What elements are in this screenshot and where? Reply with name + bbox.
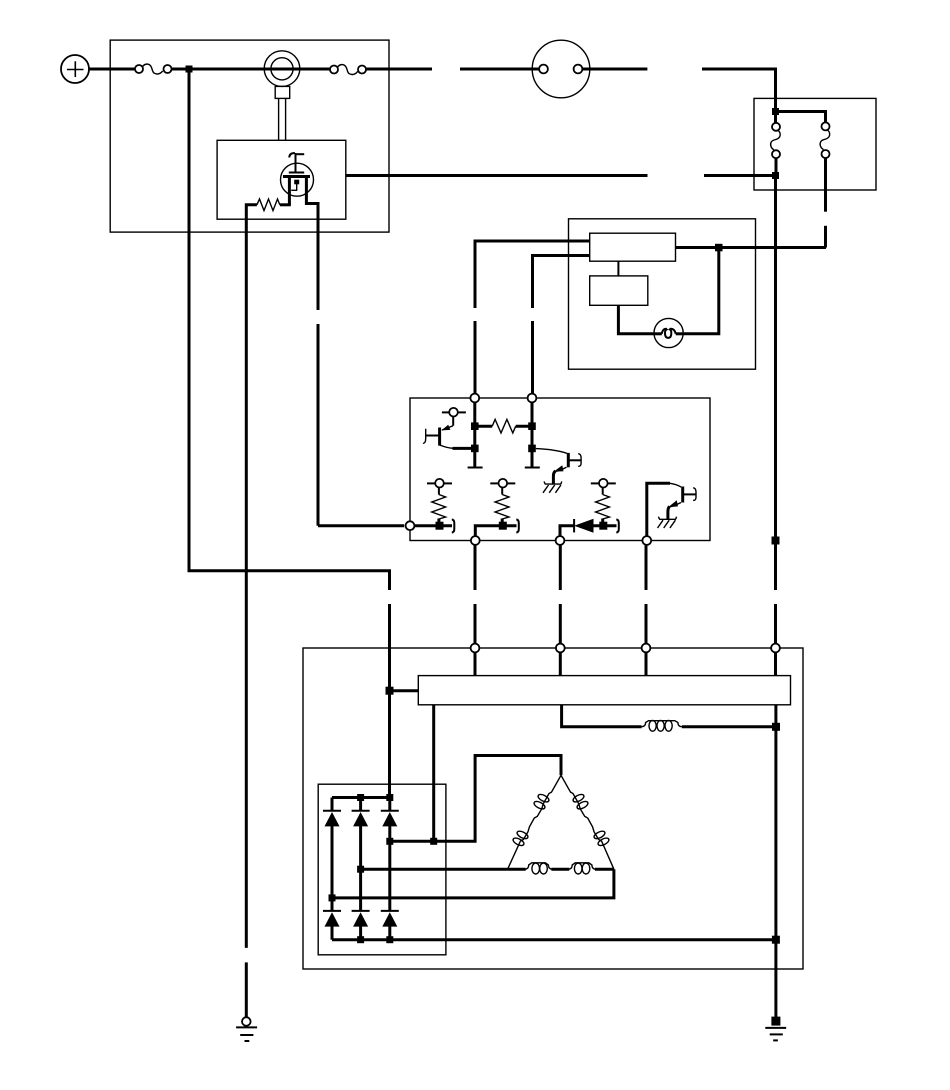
node: splice on main vertical: [772, 537, 780, 545]
wire regulator terminal2 riser: [475, 526, 516, 537]
alternator input terminal A4: [771, 644, 780, 653]
brush/terminal bar rectangle: [418, 676, 790, 705]
rectifier box: [318, 784, 446, 955]
resistor R3 unit: [490, 479, 515, 530]
stator delta winding bottom side: [508, 863, 614, 874]
wire B+ feed into bar: [390, 689, 419, 692]
wire gauge feed 1: [475, 241, 590, 308]
regulator top terminal T2: [528, 394, 537, 403]
main vertical wire from fuse box to alternator: [774, 176, 777, 591]
node: battery feed junction: [186, 66, 193, 73]
node: bottom bus junction D5: [357, 936, 364, 943]
node: regulator net1 vertical: [468, 402, 483, 467]
wire bar to field coil: [562, 705, 642, 727]
ground (right, alternator case): [765, 1017, 786, 1041]
wire field coil to main vertical: [682, 725, 776, 728]
alternator input terminal A1: [471, 644, 480, 653]
wire jumper to fuse F4: [776, 112, 826, 123]
wire junction to ring component: [192, 68, 265, 71]
wire ELD feed (y=175.5 run): [346, 174, 648, 177]
under-dash fuse box: [754, 98, 876, 190]
wire continuing after connector gap: [774, 604, 777, 644]
wire regulator B3 to alternator: [645, 545, 648, 590]
gauge internal unit B: [590, 276, 648, 305]
node: bottom bus junction D6: [386, 936, 393, 943]
stator delta winding right side: [561, 775, 614, 869]
wire fuse F4 down with connector gap: [824, 158, 827, 212]
fuse F2: [330, 65, 366, 75]
ground lead wire (left): [245, 219, 248, 948]
diode D4: [323, 898, 341, 940]
node: field coil junction: [772, 723, 780, 731]
node: top bus junction right: [386, 794, 393, 801]
node: top bus junction middle: [357, 794, 364, 801]
diode D1: [323, 798, 341, 898]
wire segment to under-dash fuse box: [702, 69, 776, 113]
wire unit A to unit B: [617, 261, 619, 276]
wire ignition switch to gap: [583, 68, 648, 71]
diode D7 (zener): [560, 519, 617, 537]
transistor Q3: [647, 483, 696, 536]
wire through ring component to fuse F2: [265, 68, 330, 71]
node: charge light junction: [715, 244, 723, 252]
node: phase V junction on D2 column: [357, 866, 364, 873]
voltage regulator box: [410, 398, 710, 541]
regulator left terminal: [406, 521, 415, 530]
wire bar tap to stator phase W: [432, 705, 435, 842]
ELD unit inner box: [217, 140, 346, 219]
wire A2 to brush bar: [559, 652, 562, 675]
transistor Q2: [536, 449, 581, 493]
wire bulb to junction: [683, 248, 719, 334]
wire segment to ignition switch: [460, 68, 539, 71]
wire A3 to brush bar: [645, 652, 648, 675]
wire unit B to bulb: [618, 305, 654, 334]
node: fuse box bottom junction: [772, 172, 779, 179]
node: phase U junction on D3 column: [386, 838, 393, 845]
rectifier bottom bus: [332, 938, 776, 941]
gauge assembly box: [569, 219, 756, 369]
alternator box: [303, 648, 803, 969]
wire alternator output to ground: [774, 940, 777, 1018]
regulator top terminal T1: [470, 394, 479, 403]
regulator left terminal wire: [414, 524, 452, 527]
wire regulator B1 to alternator: [474, 545, 477, 590]
ignition switch: [532, 40, 590, 98]
ground (left, ELD): [236, 1017, 257, 1041]
wire end bracket: [452, 520, 455, 533]
wire ELD right leg to output: [306, 204, 318, 220]
stator delta winding left side: [508, 775, 561, 869]
node: regulator net2 vertical: [525, 402, 540, 467]
wire A1 to brush bar: [474, 652, 477, 675]
wire ELD output down with connector gap: [317, 219, 320, 310]
wire end bracket: [616, 520, 619, 533]
wire main vertical to bottom bus: [774, 727, 777, 940]
wire phase V to delta bottom-left: [361, 868, 508, 871]
alternator input terminal A3: [642, 644, 651, 653]
wire phase W to delta bottom-right: [332, 869, 614, 898]
gauge internal unit A: [590, 233, 676, 261]
resistor R4 unit: [591, 479, 616, 530]
wire resistor to ground lead: [246, 205, 257, 219]
node: bar tap junction: [430, 838, 437, 845]
wire ELD left leg to resistor: [280, 203, 291, 206]
wire A4 to brush bar: [774, 652, 777, 675]
resistor in ELD box: [257, 199, 280, 211]
battery positive terminal: [61, 55, 89, 83]
wire ELD feed right segment: [704, 174, 776, 177]
regulator bottom terminal B2: [556, 536, 565, 545]
ring component (double circle with tab): [264, 51, 300, 140]
node: phase W junction on D1 column: [329, 894, 336, 901]
diode D5: [352, 869, 370, 940]
wire fuse F2 to gap: [366, 68, 432, 71]
field coil L1: [642, 720, 682, 731]
wire to regulator left terminal: [318, 524, 404, 527]
wire unit A to charge light feed: [676, 246, 827, 249]
wire regulator B2 to alternator: [559, 545, 562, 590]
transistor Q1: [423, 408, 472, 448]
resistor R1 (between net1 and net2): [475, 419, 532, 433]
node: fuse box top junction: [772, 108, 779, 115]
wire end bracket: [516, 520, 519, 533]
fuse F1: [135, 64, 172, 74]
regulator bottom terminal B1: [471, 536, 480, 545]
wire gauge feed 2: [533, 256, 590, 309]
wire fuse F1 to junction: [172, 68, 187, 71]
wire battery to fuse F1: [89, 68, 136, 71]
diode D6: [381, 911, 399, 940]
fuse box (top-left dashed outline box): [110, 40, 389, 232]
alternator input terminal A2: [556, 644, 565, 653]
ELD sensor: [281, 153, 314, 205]
fuse F4: [820, 122, 830, 158]
diode D3: [381, 798, 399, 911]
wire battery junction down to alternator B+: [189, 69, 390, 590]
wire gauge feed 2 lower segment: [531, 321, 534, 393]
rectifier top bus: [332, 796, 390, 799]
wire phase U to delta apex: [390, 756, 561, 842]
wire B+ vertical to rectifier: [388, 691, 391, 798]
wire bar bottom to coil junction: [774, 705, 777, 727]
diode D2: [352, 798, 370, 870]
regulator bottom terminal B3: [642, 536, 651, 545]
ground (Q2 emitter) ticks above baseline: [544, 482, 562, 485]
wire gauge feed 1 lower segment: [474, 321, 477, 393]
fuse F3: [771, 114, 781, 172]
node: bottom bus junction main vertical: [772, 936, 780, 944]
node: B+ junction: [386, 687, 394, 695]
charge warning light bulb: [654, 318, 683, 347]
resistor R2 unit: [427, 479, 452, 530]
